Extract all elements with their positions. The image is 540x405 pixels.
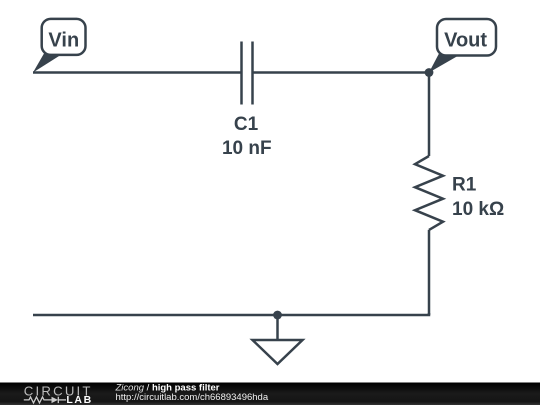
flag Vout balloon (437, 19, 496, 56)
wire vertical upper (428, 73, 431, 157)
flag Vin balloon (42, 19, 86, 55)
logo squiggle wire resistor diode (24, 397, 66, 403)
footer bar (0, 383, 540, 405)
wire bottom (33, 313, 429, 315)
resistor R1 zigzag (415, 156, 443, 230)
svg-text:R1: R1 (452, 174, 477, 195)
flag Vout tail (429, 54, 462, 73)
wire vertical lower (428, 230, 431, 315)
ground triangle (253, 340, 303, 364)
wire top-right (253, 71, 430, 74)
wire top-left (33, 71, 242, 74)
flag Vin tail (33, 54, 63, 73)
node dot Vout (425, 68, 434, 77)
svg-text:10 nF: 10 nF (222, 138, 272, 159)
svg-text:http://circuitlab.com/ch668934: http://circuitlab.com/ch66893496hda (116, 392, 269, 403)
svg-text:Vout: Vout (444, 30, 487, 52)
capacitor C1 plates (242, 42, 253, 105)
svg-text:10 kΩ: 10 kΩ (452, 199, 504, 220)
svg-text:Vin: Vin (48, 30, 79, 52)
svg-text:LAB: LAB (66, 394, 92, 405)
svg-text:C1: C1 (234, 114, 259, 135)
junction dot ground (273, 311, 282, 320)
ground stem (276, 315, 279, 340)
